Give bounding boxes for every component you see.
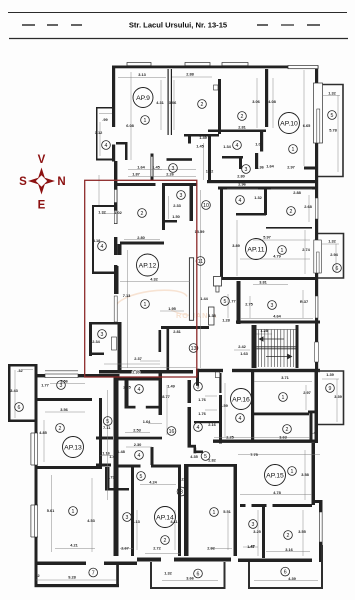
svg-text:3: 3 (180, 490, 183, 496)
svg-text:.77: .77 (230, 299, 235, 304)
stair bottom exterior wall (196, 369, 320, 372)
AP.15 room1 north wall (188, 464, 237, 467)
svg-text:3: 3 (60, 383, 63, 389)
dim AP.11 (227, 188, 258, 190)
svg-text:3.43: 3.43 (10, 388, 18, 393)
svg-text:2.16: 2.16 (208, 422, 216, 427)
svg-text:1.34: 1.34 (223, 144, 231, 149)
AP.12 hall east wall (167, 329, 170, 371)
svg-text:3: 3 (172, 166, 175, 172)
dim AP.9 balcony (99, 122, 101, 156)
AP.15 wall between room3 and room2 (262, 507, 265, 558)
svg-text:1.48: 1.48 (310, 430, 318, 435)
dim right side 1.45 (203, 143, 205, 180)
svg-text:1.49: 1.49 (199, 135, 207, 140)
svg-text:5.51: 5.51 (223, 509, 231, 514)
svg-text:3.13: 3.13 (138, 72, 146, 77)
star (28, 168, 55, 195)
dim AP.13 (14, 370, 16, 418)
AP.12 bottom exterior wall (99, 370, 193, 374)
svg-text:1.48: 1.48 (117, 449, 125, 454)
svg-text:1.50: 1.50 (172, 214, 180, 219)
svg-text:6.65: 6.65 (303, 123, 311, 128)
AP.12 wall between room2 and room3 (162, 186, 165, 230)
AP.14 room4 bottom wall (125, 406, 136, 409)
svg-text:2.25: 2.25 (226, 435, 234, 440)
svg-text:2.96: 2.96 (238, 182, 246, 187)
AP.11 left wall (220, 189, 223, 280)
AP.10 room2 south wall (208, 130, 266, 133)
AP.12 right wall upper (190, 186, 194, 221)
svg-text:1.02: 1.02 (206, 169, 214, 174)
svg-text:3.12: 3.12 (95, 130, 103, 135)
AP.13 wall below room2 (38, 466, 100, 469)
svg-text:2.81: 2.81 (173, 329, 181, 334)
AP.16 small wall left strip (194, 421, 219, 423)
dim near red rect bottom (120, 367, 196, 369)
svg-text:4.39: 4.39 (288, 576, 296, 581)
svg-text:6: 6 (197, 572, 200, 578)
svg-text:1: 1 (72, 509, 75, 515)
svg-text:1.64: 1.64 (137, 165, 145, 170)
svg-text:3.81: 3.81 (259, 280, 267, 285)
stair up-arrow upper flight (points left) (263, 338, 284, 340)
svg-text:7: 7 (92, 571, 95, 577)
windows and balcony rails (31, 63, 344, 589)
AP.14 hall south wall (105, 488, 129, 491)
svg-text:S: S (19, 176, 27, 188)
svg-text:13: 13 (191, 346, 197, 352)
svg-text:7.75: 7.75 (250, 452, 258, 457)
dim AP.16 (254, 381, 312, 383)
svg-text:3.89: 3.89 (232, 243, 240, 248)
svg-text:1.32: 1.32 (98, 210, 106, 215)
svg-text:1.36: 1.36 (256, 165, 264, 170)
svg-text:3: 3 (126, 515, 129, 521)
AP.12 hall south wall (161, 326, 209, 329)
entry door slot right wall at stairs (315, 342, 319, 362)
svg-text:2.81: 2.81 (238, 125, 246, 130)
svg-text:3.56: 3.56 (60, 407, 68, 412)
svg-text:1: 1 (282, 395, 285, 401)
window in right wall lower (315, 296, 318, 318)
svg-text:1.32: 1.32 (164, 571, 172, 576)
svg-text:AP.10: AP.10 (280, 121, 298, 128)
door openings AP.12 left wall (114, 224, 119, 237)
AP.12 left exterior wall (114, 161, 117, 274)
stairs (252, 325, 299, 368)
dim line AP.9 top (118, 77, 166, 79)
window slot room3 west wall (151, 157, 153, 177)
svg-text:2.68: 2.68 (304, 204, 312, 209)
AP.16 top-left corner stub (196, 369, 199, 386)
svg-text:1: 1 (144, 302, 147, 308)
balcony door opening AP.9 left wall (112, 127, 117, 145)
svg-text:5.78: 5.78 (329, 128, 337, 133)
svg-text:4.64: 4.64 (273, 314, 281, 319)
AP.14 wall between room3 and room2 (131, 466, 134, 556)
svg-text:1.63: 1.63 (240, 351, 248, 356)
circles: room numbers (15, 100, 342, 578)
svg-text:E: E (38, 200, 46, 212)
svg-text:1: 1 (144, 118, 147, 124)
window in right wall at stair landing (315, 198, 318, 219)
svg-text:4.32: 4.32 (150, 277, 158, 282)
right exterior wall upper (AP.10/AP.11) (315, 66, 318, 370)
wall between AP.13 and AP.14 (114, 377, 119, 556)
AP.9 balcony bottom wall (96, 159, 114, 161)
closet wall right of AP.9 (188, 136, 191, 144)
svg-text:N: N (57, 176, 65, 188)
svg-text:4.21: 4.21 (70, 543, 78, 548)
svg-text:3.06: 3.06 (252, 99, 260, 104)
svg-text:1.21: 1.21 (178, 477, 186, 482)
dim vertical AP.9 (130, 72, 132, 160)
svg-text:3: 3 (252, 522, 255, 528)
svg-text:2.42: 2.42 (238, 344, 246, 349)
corridor west wall lower (188, 407, 192, 445)
svg-text:AP.15: AP.15 (266, 473, 284, 480)
dim AP.10 verticals (256, 78, 258, 128)
svg-text:4: 4 (101, 244, 104, 250)
window sill AP.10 top (222, 63, 248, 66)
AP.13 wall below room3 (38, 398, 93, 401)
svg-text:4: 4 (239, 416, 242, 422)
svg-text:4: 4 (239, 198, 242, 204)
window in AP.12 left wall upper (114, 190, 117, 203)
svg-text:2.94: 2.94 (330, 252, 338, 257)
svg-text:4.13: 4.13 (132, 519, 140, 524)
AP.13 terrace east wall (116, 565, 119, 587)
header group: street band (8, 13, 348, 39)
svg-text:2.34: 2.34 (92, 339, 100, 344)
svg-text:1.28: 1.28 (222, 318, 230, 323)
svg-text:2.74: 2.74 (302, 247, 310, 252)
AP.13 terrace bottom wall (35, 584, 120, 587)
svg-text:2.97: 2.97 (287, 165, 295, 170)
svg-text:R.37: R.37 (300, 299, 308, 304)
svg-text:AP.14: AP.14 (156, 515, 174, 522)
stair top edge (257, 329, 296, 331)
AP.10 right balcony rails (318, 85, 343, 177)
svg-text:AP.11: AP.11 (247, 247, 264, 254)
stairwell west wall (252, 325, 257, 368)
svg-text:1: 1 (292, 147, 295, 153)
window sill AP.9 top second (185, 63, 210, 66)
AP.11 wall between room4 and room2 (264, 189, 267, 215)
AP.11 south wall (220, 277, 315, 280)
svg-text:1.49: 1.49 (167, 384, 175, 389)
AP.10 bath walls (222, 156, 243, 159)
svg-text:1.32: 1.32 (328, 91, 336, 96)
AP.12 right wall lower (hollow) (189, 258, 193, 321)
AP.9 wardrobe double wall (168, 69, 169, 135)
svg-text:3: 3 (245, 167, 248, 173)
svg-text:5: 5 (331, 113, 334, 119)
svg-text:5: 5 (204, 454, 207, 460)
svg-text:4: 4 (236, 143, 239, 149)
window slot AP.13 top wall (45, 374, 78, 378)
shaft box lower (209, 307, 215, 325)
svg-text:2.92: 2.92 (207, 546, 215, 551)
AP.13 rooms east wall (99, 398, 102, 469)
AP.12 lower-left room top wall (89, 322, 122, 325)
svg-text:4.78: 4.78 (273, 490, 281, 495)
svg-text:2.25: 2.25 (123, 385, 131, 390)
AP.12 balcony bottom wall (92, 272, 114, 275)
svg-text:1.45: 1.45 (152, 165, 160, 170)
AP.14 room4 top wall (117, 378, 163, 381)
AP.14 wall above room4 (117, 437, 163, 440)
right exterior wall AP.15 upper (312, 443, 316, 505)
svg-text:2.37: 2.37 (134, 356, 142, 361)
svg-text:2.72: 2.72 (153, 546, 161, 551)
svg-text:2.67: 2.67 (121, 546, 129, 551)
svg-text:16: 16 (169, 429, 175, 435)
bottom rule (9, 38, 348, 40)
svg-text:6: 6 (18, 405, 21, 411)
watermark (116, 290, 217, 320)
svg-text:1.76: 1.76 (198, 397, 206, 402)
AP.14 room4 left wall (125, 381, 129, 409)
door openings (white) (112, 127, 273, 508)
AP.14 room4 right wall (159, 371, 163, 415)
svg-text:11: 11 (198, 259, 203, 265)
svg-text:2.80: 2.80 (237, 174, 245, 179)
AP.16 south thick wall (213, 440, 315, 443)
dim AP.16 balcony (322, 378, 339, 380)
svg-text:3.63: 3.63 (279, 435, 287, 440)
svg-text:1.64: 1.64 (266, 164, 274, 169)
svg-text:8.77: 8.77 (162, 394, 170, 399)
svg-text:.38: .38 (96, 321, 102, 326)
svg-text:1.48: 1.48 (109, 454, 117, 459)
AP.9 closet wall (112, 142, 127, 145)
door leaf AP.12 lower-left room (112, 337, 117, 350)
dim stairs (255, 333, 272, 335)
AP.12 lower-left room west wall (89, 322, 92, 356)
svg-text:2: 2 (287, 533, 290, 539)
svg-text:V: V (38, 154, 46, 166)
svg-text:1.32: 1.32 (254, 195, 262, 200)
svg-text:AP.9: AP.9 (136, 95, 150, 102)
window sill AP.9 top (127, 63, 151, 66)
AP.10 living SE wall piece (304, 167, 315, 170)
svg-text:1.08: 1.08 (255, 142, 263, 147)
svg-text:10: 10 (203, 203, 209, 209)
top rule (8, 12, 347, 14)
right exterior wall AP.15 lower protrusion (319, 500, 323, 562)
svg-text:1.95: 1.95 (168, 306, 176, 311)
svg-text:2.33: 2.33 (173, 203, 181, 208)
svg-text:3.06: 3.06 (169, 100, 177, 105)
svg-text:7.11: 7.11 (103, 425, 111, 430)
dimlines (15, 70, 340, 581)
svg-text:3: 3 (180, 193, 183, 199)
walls (8, 66, 323, 588)
AP.13 bath walls (96, 437, 113, 440)
AP.13 top exterior wall (35, 374, 120, 377)
AP.12 pier (118, 244, 122, 255)
corridor niche step walls (188, 445, 197, 448)
AP.12 balcony west wall (92, 205, 94, 274)
svg-text:4.59: 4.59 (220, 403, 228, 408)
AP.11 top wall (218, 187, 315, 190)
svg-text:AP.16: AP.16 (232, 397, 250, 404)
svg-text:.72: .72 (34, 573, 40, 578)
AP.11 wall below room4 (236, 213, 266, 216)
svg-text:2: 2 (141, 211, 144, 217)
svg-text:2.30: 2.30 (134, 442, 142, 447)
AP.15 wall between living and rooms 2-3 (240, 504, 312, 507)
AP.12 top wall (115, 183, 197, 186)
svg-text:4: 4 (138, 387, 141, 393)
svg-text:.32: .32 (17, 368, 23, 373)
window in AP.12 left wall lower (114, 211, 117, 224)
svg-text:5.61: 5.61 (47, 508, 55, 513)
svg-text:2.53: 2.53 (133, 428, 141, 433)
dim AP.12 (127, 250, 129, 368)
svg-text:5: 5 (224, 299, 227, 305)
shaft box at AP.11 corridor (214, 277, 222, 287)
AP.9 balcony west wall (96, 107, 98, 160)
dim AP.11 balcony (322, 243, 339, 245)
stair treads upper flight (258, 330, 293, 368)
svg-text:2.88: 2.88 (186, 72, 194, 77)
svg-text:1.87: 1.87 (132, 172, 140, 177)
svg-text:9.28: 9.28 (68, 575, 76, 580)
AP.12 lower-left room bottom wall (89, 353, 104, 356)
svg-text:Str. Lacul Ursului, Nr. 13-15: Str. Lacul Ursului, Nr. 13-15 (129, 21, 228, 30)
AP.15 east interior wall stub (308, 411, 315, 414)
svg-text:3.71: 3.71 (281, 375, 289, 380)
AP.14/AP.15 division wall (184, 464, 189, 556)
svg-text:AP.12: AP.12 (139, 263, 157, 270)
AP.14 bottom balcony rails (151, 562, 225, 588)
svg-text:3.66: 3.66 (186, 576, 194, 581)
AP.13 west exterior wall (35, 364, 38, 587)
svg-text:2: 2 (59, 426, 62, 432)
stair down-arrow lower flight (points right) (266, 356, 288, 358)
svg-text:1.45: 1.45 (196, 144, 204, 149)
dashed street centerline left (22, 24, 35, 26)
svg-text:4: 4 (105, 143, 108, 149)
svg-text:4.53: 4.53 (87, 518, 95, 523)
svg-text:.99: .99 (102, 117, 108, 122)
svg-text:2.80: 2.80 (137, 235, 145, 240)
AP.16 right balcony rails (318, 371, 344, 425)
AP.12 balcony top wall (92, 205, 114, 207)
AP.11 bath wall (237, 281, 241, 324)
svg-text:4: 4 (197, 425, 200, 431)
big window AP.10 right wall (314, 83, 323, 143)
svg-text:3.39: 3.39 (334, 394, 342, 399)
AP.14 room4 east partition (151, 447, 154, 465)
svg-text:.73: .73 (109, 475, 115, 480)
AP.14/15 bottom wall (137, 558, 161, 562)
svg-text:2.88: 2.88 (293, 190, 301, 195)
AP.13 top-left balcony walls (8, 364, 35, 367)
svg-text:AP.13: AP.13 (64, 445, 82, 452)
svg-text:2: 2 (241, 114, 244, 120)
stairwell east wall (296, 325, 299, 368)
AP.11 right balcony rails (318, 234, 344, 279)
svg-text:1.35: 1.35 (208, 313, 216, 318)
svg-text:4.31: 4.31 (156, 100, 164, 105)
svg-text:9: 9 (329, 386, 332, 392)
svg-text:1.64: 1.64 (143, 419, 151, 424)
red rectangle highlight around AP.12 (85, 180, 197, 377)
AP.14 wall below room4 (117, 465, 141, 468)
dim AP.14 (166, 385, 168, 435)
corridor west wall upper (188, 380, 192, 403)
svg-text:1: 1 (291, 469, 294, 475)
AP.12 hall west wall (159, 330, 162, 352)
wall between AP.9 and AP.10 (218, 79, 221, 134)
svg-text:5: 5 (140, 474, 143, 480)
svg-text:5.97: 5.97 (263, 235, 271, 240)
svg-text:2.75: 2.75 (245, 302, 253, 307)
svg-text:3.16: 3.16 (285, 547, 293, 552)
svg-text:3: 3 (101, 332, 104, 338)
svg-text:1.28: 1.28 (260, 328, 268, 333)
entry hall south thick wall (207, 180, 318, 183)
svg-text:3.58: 3.58 (301, 472, 309, 477)
dim AP.15 (238, 454, 320, 456)
niche box on AP.9/10 wall (214, 85, 219, 90)
AP.9 balcony top wall (96, 107, 113, 109)
svg-text:6: 6 (336, 266, 339, 272)
svg-text:2: 2 (286, 427, 289, 433)
AP.16 wall between living and room2 (252, 413, 309, 416)
svg-text:6.08: 6.08 (126, 123, 134, 128)
svg-text:5: 5 (106, 419, 109, 425)
svg-text:4.35: 4.35 (190, 454, 198, 459)
svg-text:1.76: 1.76 (198, 411, 206, 416)
svg-text:4.85: 4.85 (39, 430, 47, 435)
svg-text:7.13: 7.13 (123, 293, 131, 298)
svg-text:4.08: 4.08 (268, 99, 276, 104)
AP.14 east wall (178, 466, 181, 556)
dashed street centerline right (257, 24, 268, 26)
window slots AP.13 west wall (34, 433, 37, 465)
corridor vertical wall (208, 136, 211, 183)
svg-text:3.25: 3.25 (253, 529, 261, 534)
AP.9 closet vertical (125, 142, 128, 160)
svg-text:2.30: 2.30 (132, 369, 140, 374)
svg-text:1.47: 1.47 (247, 544, 255, 549)
svg-text:1: 1 (281, 248, 284, 254)
dim AP.10 right balcony (322, 95, 340, 97)
AP.12 stub wall room3 (165, 220, 177, 223)
right exterior wall AP.16 (315, 369, 319, 443)
svg-text:1.39: 1.39 (326, 372, 334, 377)
compass rose (19, 154, 65, 212)
top exterior wall (112, 66, 319, 69)
svg-text:4.24: 4.24 (149, 480, 157, 485)
svg-text:1.77: 1.77 (41, 383, 49, 388)
window slot AP.15 right protrusion (319, 512, 322, 542)
svg-text:2.97: 2.97 (303, 390, 311, 395)
stair landing double line (257, 346, 296, 348)
window slot AP.12 west wall lower (114, 296, 117, 322)
long 13.59 dim line (200, 190, 202, 368)
AP.12 wall below room2 (120, 242, 164, 245)
AP.10 wall between room2 and living (265, 69, 268, 127)
AP.12 lower-left room east wall (118, 322, 122, 370)
AP.11 wall below room2 (266, 227, 312, 229)
AP.11 corridor south wall (236, 321, 320, 324)
